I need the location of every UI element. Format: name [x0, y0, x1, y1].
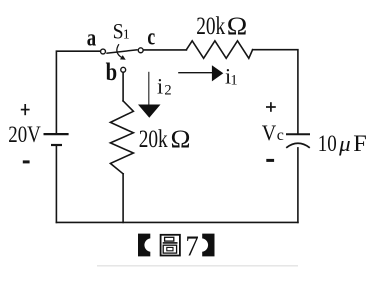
svg-text:1: 1 — [230, 73, 237, 89]
svg-text:c: c — [147, 25, 155, 51]
svg-text:20k: 20k — [139, 126, 168, 153]
svg-text:2: 2 — [164, 83, 171, 99]
svg-text:c: c — [277, 127, 284, 144]
svg-text:F: F — [353, 131, 367, 156]
svg-text:b: b — [106, 59, 118, 86]
svg-text:i: i — [157, 74, 163, 99]
svg-text:μ: μ — [338, 131, 351, 156]
svg-text:1: 1 — [123, 28, 130, 43]
svg-text:Ω: Ω — [171, 126, 191, 153]
svg-text:20V: 20V — [8, 122, 41, 147]
svg-text:10: 10 — [318, 131, 337, 156]
svg-text:7: 7 — [185, 232, 198, 263]
svg-text:a: a — [87, 26, 96, 52]
svg-text:Ω: Ω — [227, 13, 248, 40]
svg-text:V: V — [262, 120, 277, 145]
svg-text:20k: 20k — [196, 13, 225, 40]
